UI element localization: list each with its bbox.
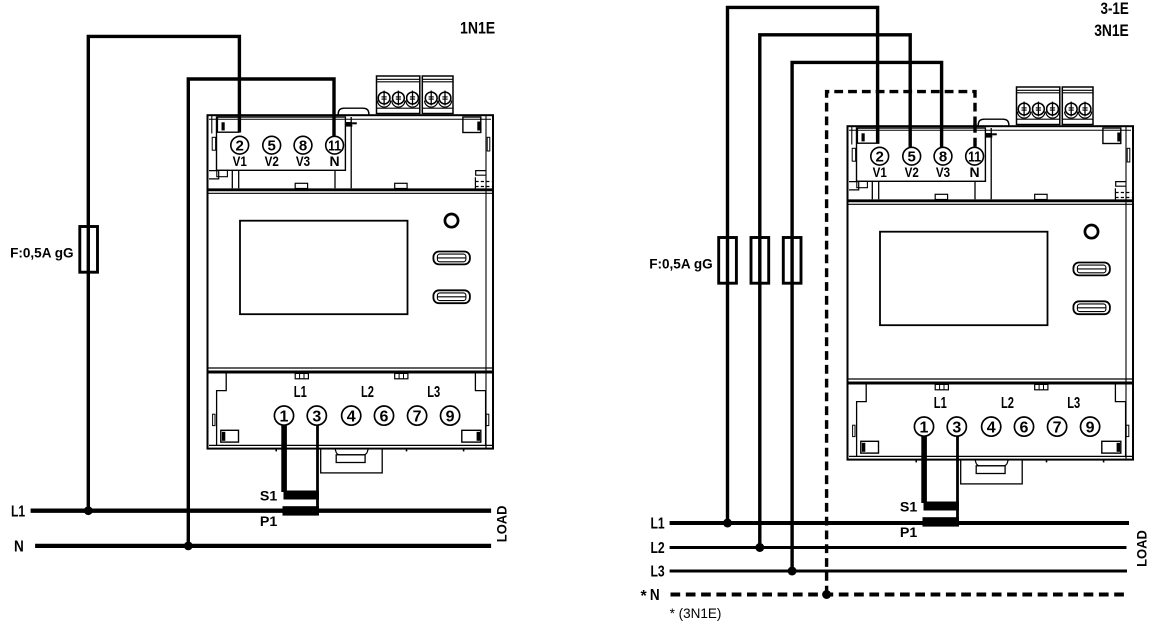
svg-text:P1: P1 xyxy=(900,525,918,540)
svg-text:3-1E: 3-1E xyxy=(1101,0,1129,18)
svg-text:L3: L3 xyxy=(427,384,440,401)
svg-text:LOAD: LOAD xyxy=(495,505,510,542)
svg-text:L3: L3 xyxy=(651,564,665,581)
svg-text:* (3N1E): * (3N1E) xyxy=(670,606,722,621)
svg-text:L1: L1 xyxy=(11,503,25,520)
svg-text:S1: S1 xyxy=(900,499,918,514)
svg-text:L2: L2 xyxy=(361,384,374,401)
svg-text:V3: V3 xyxy=(296,153,310,169)
svg-text:F:0,5A gG: F:0,5A gG xyxy=(649,256,713,272)
svg-text:3N1E: 3N1E xyxy=(1094,21,1129,40)
svg-text:1: 1 xyxy=(280,408,289,425)
svg-text:LOAD: LOAD xyxy=(1135,530,1150,567)
svg-text:P1: P1 xyxy=(260,514,278,529)
svg-text:V1: V1 xyxy=(233,153,247,169)
svg-text:L1: L1 xyxy=(651,516,665,533)
svg-text:N: N xyxy=(14,539,24,556)
svg-text:7: 7 xyxy=(413,408,422,425)
svg-text:3: 3 xyxy=(312,408,321,425)
svg-text:L2: L2 xyxy=(651,540,665,557)
svg-text:V2: V2 xyxy=(265,153,279,169)
svg-text:9: 9 xyxy=(446,408,455,425)
svg-text:6: 6 xyxy=(380,408,389,425)
svg-text:N: N xyxy=(650,587,660,604)
svg-text:N: N xyxy=(330,153,340,169)
svg-text:1N1E: 1N1E xyxy=(460,19,495,38)
svg-text:L1: L1 xyxy=(294,384,307,401)
svg-text:F:0,5A gG: F:0,5A gG xyxy=(10,245,74,261)
svg-text:4: 4 xyxy=(347,408,356,425)
svg-text:*: * xyxy=(641,588,648,605)
svg-text:S1: S1 xyxy=(260,488,278,503)
